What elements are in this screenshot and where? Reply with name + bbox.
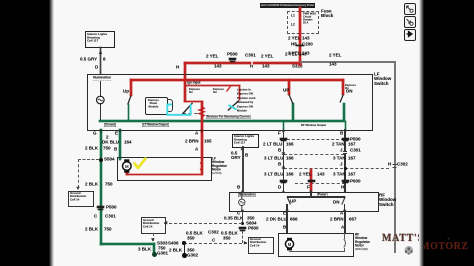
pin A label (RF switch bottom)	[340, 211, 343, 216]
pin D label	[95, 65, 98, 70]
LF Window Switch box	[87, 74, 373, 131]
fuse block label	[321, 9, 333, 18]
dashed row C301	[284, 154, 344, 155]
pin B label (RF switch illumination)	[237, 185, 240, 190]
arrow down to S303 from distribution box	[151, 238, 155, 241]
connector P600 on TAN column	[342, 180, 349, 182]
wire: green from UP contact (right)	[292, 103, 294, 121]
label 2 BLK 750	[85, 146, 98, 151]
wire: green from Up contact	[128, 104, 130, 121]
wire: 0.35 BLK 350 from pin C	[242, 210, 244, 223]
dashed run from ground distribution (left) to S604	[164, 223, 242, 224]
dashed branch to ground distribution cell	[78, 159, 99, 160]
splice S406 and ground G302	[182, 241, 186, 245]
label 2 LT BLU 166	[263, 142, 282, 147]
wire: red drop to UP contact (right half)	[288, 79, 290, 95]
RF Window Output label	[301, 124, 326, 127]
arrow into ground distribution cell (left)	[76, 187, 79, 190]
pin H label (RF switch)	[341, 185, 344, 190]
wire: LT BLU column (RF window up feed)	[283, 129, 285, 192]
illumination label (LF switch)	[93, 76, 111, 81]
wire: 2 DK BLU 666 RF switch to motor	[286, 210, 288, 233]
label 2 YEL / 143	[206, 54, 218, 59]
connector P600 below S604	[239, 227, 246, 229]
arrow into dimming cell (top left)	[99, 50, 103, 54]
lamp symbol RF switch	[239, 193, 245, 211]
DN contact blade (LF right)	[340, 95, 343, 103]
label 2 DK BLU 164	[106, 135, 109, 140]
pin E label	[115, 131, 118, 136]
pin A label	[195, 131, 198, 136]
svg-text:M: M	[288, 242, 292, 247]
watermark soccer ball	[405, 246, 413, 254]
RF Window Switch label	[379, 193, 396, 207]
wire: red branch to express contacts	[185, 85, 240, 87]
arrows at RF switch bottom pins	[241, 210, 244, 213]
interior lights dimming cell 117 box (middle)	[232, 134, 259, 148]
ground distribution cell 14 box (middle)	[141, 217, 166, 234]
arrows at RF switch top pins	[282, 190, 285, 193]
RF motor symbol	[285, 238, 293, 251]
dashed from P600 down	[242, 231, 243, 243]
pin G label	[93, 131, 97, 136]
wire: lamp to ground bus	[100, 103, 101, 121]
ground distribution cell 14 box (right)	[248, 237, 274, 254]
pin H label	[176, 65, 179, 70]
wire: red path inside LF motor box	[201, 157, 203, 175]
pin J / C301	[340, 148, 343, 153]
label 2 YEL 143 near S310	[285, 52, 297, 57]
wire: 2 YEL 143 main feed vertical from fuse block	[299, 7, 301, 64]
UP contact (RF switch)	[290, 199, 296, 204]
pin B label (motor)	[114, 147, 117, 152]
express contact 2 red tip	[224, 83, 236, 95]
Latches In text block	[237, 88, 255, 113]
Ground label	[104, 123, 116, 127]
pin H / C302 labels at page edge	[388, 162, 391, 167]
connector P600 on LT BLU column	[280, 180, 287, 182]
yellow check mark	[135, 159, 146, 169]
pin E label (RF switch bottom)	[283, 211, 286, 216]
connector P500 on horizontal run	[227, 52, 238, 57]
wire: ground 2 BLK 750 long green vertical	[100, 129, 102, 245]
express Dn contact blade	[182, 103, 193, 115]
wire: green bottom run to S303	[100, 243, 155, 245]
wire: green drop to pin B	[345, 121, 346, 132]
wire: right page edge vertical (2 YEL feed to RF area)	[394, 61, 396, 253]
connector P600 on YEL stub	[308, 180, 315, 182]
Resistor For Monitoring Current label	[206, 115, 251, 119]
green ground/output bus in LF switch	[99, 120, 345, 122]
express On contact blade (middle)	[228, 101, 239, 111]
dashed row P600	[295, 183, 345, 184]
wire: 2 YEL 143 red stub into RF switch	[310, 169, 312, 192]
power label (RF switch)	[317, 193, 327, 197]
arrow into ground distribution cell (right)	[244, 241, 248, 245]
connector C301 on ground wire	[94, 214, 97, 219]
wire: drop to LF switch pin H	[184, 62, 186, 75]
label 3 TAN 167 (lower)	[333, 172, 346, 177]
splice S604	[241, 222, 245, 226]
wire: Ign Input drop from pin H	[184, 75, 186, 102]
LF Window Regulator Motor box	[117, 157, 212, 181]
illumination label (RF switch)	[238, 193, 256, 197]
watermark MATT'S	[382, 233, 424, 244]
lamp symbol LF switch	[97, 96, 105, 104]
LF Window Switch label	[374, 72, 391, 86]
Express On label (middle)	[213, 88, 224, 94]
schematic page background	[49, 0, 54, 266]
Express Dn label	[189, 88, 200, 94]
pin L2	[291, 23, 295, 27]
LF motor brush arc	[200, 163, 202, 171]
pin F label (below LF box)	[278, 131, 281, 136]
wire: 2 YEL 143 gray run to right page edge	[300, 61, 395, 63]
LF motor symbol	[123, 159, 132, 172]
fuse block dashed box	[287, 11, 319, 34]
pin D label	[278, 185, 281, 190]
pin G arrow below LF box	[99, 130, 102, 133]
splice S303 and ground G301	[153, 243, 155, 253]
label 2 BRN 165	[185, 139, 199, 144]
svg-text:M: M	[125, 164, 129, 169]
pin B on LT BLU (lower)	[278, 162, 281, 167]
connector C301 on horizontal run	[245, 53, 256, 58]
wire: 2 BRN 667 RF switch to motor	[344, 210, 346, 233]
viewer toolbar icon 3 (next arrow)	[404, 29, 416, 41]
label 2 BLK 750 (third)	[85, 227, 98, 232]
Up contact blade (LF left)	[128, 96, 131, 105]
arrow into ground distribution cell (middle)	[164, 221, 168, 225]
watermark MOTORZ	[420, 241, 468, 252]
label 2 YEL 143 (upper)	[288, 36, 298, 41]
wire: 0.5 GRY B to RF switch illumination	[242, 146, 244, 192]
pin B on LT BLU	[278, 148, 281, 153]
label 2 YEL 143 (lower)	[288, 51, 298, 56]
wire: red link ign contact to motor feed	[184, 101, 203, 103]
wire: red drop to Up contact	[130, 79, 132, 96]
dashed arrow down from box to S303	[153, 233, 154, 241]
wire: green from DN contact (right)	[343, 103, 345, 121]
wire: 2 DK BLU 164 LF output to motor	[119, 129, 121, 160]
toolbar icon 3 arrow glyph	[407, 32, 413, 37]
pin C label (RF switch bottom)	[237, 211, 240, 216]
label 2 TAN 167	[332, 142, 345, 147]
DN label (right half)	[346, 89, 353, 94]
C301 connector mark on 2 YEL run	[251, 61, 253, 66]
ground distribution cell 14 box (left)	[68, 191, 94, 207]
wire: 2 YEL 143 horizontal run to LF switch	[184, 62, 301, 64]
connector C200 pin H8	[291, 42, 297, 47]
interior lights dimming cell 117 box (upper left)	[85, 31, 115, 48]
label 3 LT BLU 166	[264, 156, 283, 161]
cyan stub at express On contact	[229, 105, 237, 110]
header banner: Hot In ACC/RUN Or Retained Accessory Power	[260, 3, 315, 8]
dashed row P500	[287, 139, 344, 140]
UP contact blade (LF right)	[289, 95, 293, 104]
pin A arrow below LF box	[200, 130, 203, 133]
wire: path inside RF motor box	[344, 233, 345, 239]
pin B label (below LF box)	[340, 131, 343, 136]
wire: green drop to pin F	[283, 121, 284, 132]
label 0.5 BLK 350 (right of C302)	[221, 231, 238, 236]
splice S310	[292, 64, 303, 69]
wire: lamp feed vertical	[100, 81, 101, 97]
wire: TAN column (RF window down feed)	[344, 129, 346, 192]
pin E arrow below LF box	[118, 130, 121, 133]
dashed link contacts to resistor	[183, 113, 203, 114]
circuit breaker text: PWR WDO Circuit Breaker 25 A	[303, 13, 316, 25]
connector C301 break on TAN wire	[343, 152, 348, 154]
RF Window Switch box	[229, 192, 379, 212]
UP contact blade (RF switch)	[287, 197, 291, 205]
label 2 YEL 143	[299, 172, 311, 177]
connector P500 on ground wire	[97, 206, 104, 208]
pin B arrow below LF box	[343, 130, 347, 134]
Express Down Module box	[145, 97, 168, 115]
C302 connector marks on page edge line	[393, 165, 398, 168]
dashed row J / C302	[284, 168, 389, 169]
LF motor label	[212, 157, 227, 176]
toolbar icon 2 glyph	[407, 19, 411, 23]
dashed bottom row to C302 and ground distribution (right)	[184, 243, 247, 244]
RF motor label	[355, 233, 370, 252]
DN contact blade (RF switch)	[342, 197, 346, 205]
label 3 BLK	[138, 247, 151, 252]
power bus inside RF switch	[287, 196, 345, 197]
pin F arrow below LF box	[282, 130, 286, 134]
pin L1	[291, 14, 295, 18]
viewer toolbar icon 2 (zoom in)	[404, 16, 416, 28]
RF motor brush arc	[344, 239, 346, 248]
connector P500 on LT BLU column	[280, 138, 287, 140]
label 2 YEL / 143	[261, 54, 273, 59]
pin J (lower) and splice to C302	[340, 162, 343, 167]
label 3 TAN 167	[333, 156, 346, 161]
Express On label (right)	[345, 84, 356, 90]
wire: red drop to DN contact (right half)	[342, 79, 344, 95]
viewer toolbar icon 1 (zoom out)	[404, 3, 416, 15]
connector P500 on TAN column	[342, 138, 349, 140]
Up label	[123, 89, 129, 94]
arrow up into dimming cell (middle)	[241, 146, 244, 150]
Ign Input label	[187, 81, 200, 85]
splice S504	[99, 158, 103, 162]
toolbar icon 1 glyph	[407, 6, 411, 10]
connector C302	[208, 230, 219, 235]
module connector bump	[167, 99, 173, 112]
wire: 2 BRN 165 red to LF motor	[201, 101, 203, 159]
label 3 LT BLU 166 (lower)	[264, 172, 283, 177]
UP label (right half)	[283, 88, 289, 93]
resistor zigzag (monitoring)	[199, 107, 204, 118]
RF Window Regulator Motor box	[278, 233, 354, 257]
LF Window Output label	[142, 123, 169, 127]
wire: 0.5 GRY 8 to dimming cell	[100, 47, 101, 74]
label 2 BLK 750 (second)	[85, 182, 98, 187]
pin F label (RF switch)	[307, 185, 310, 190]
pin A label (motor)	[195, 147, 198, 152]
cyan wire from express module	[167, 104, 190, 115]
DN contact (RF switch)	[333, 200, 340, 205]
red ignition bus across LF switch	[130, 79, 344, 81]
open junction circles on LT BLU column	[282, 152, 285, 155]
label 0.5 BLK 350 (left of C302)	[186, 231, 203, 236]
